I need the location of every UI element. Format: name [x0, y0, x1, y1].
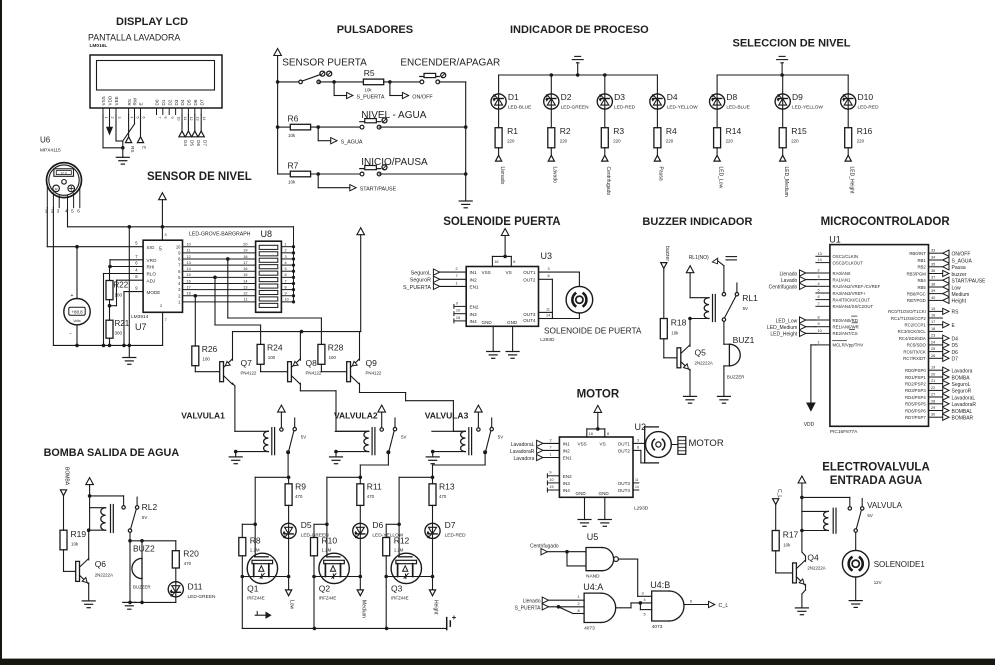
svg-text:220: 220: [726, 139, 734, 144]
svg-text:1: 1: [578, 595, 580, 599]
svg-text:R3: R3: [613, 126, 624, 136]
svg-text:U4:A: U4:A: [583, 582, 603, 592]
svg-text:220: 220: [666, 139, 674, 144]
svg-text:U1: U1: [829, 235, 841, 245]
svg-text:2: 2: [110, 117, 114, 119]
terminal LED_Low: [714, 148, 723, 189]
wire cell top Q2: [325, 476, 362, 527]
wire Q4 collector: [800, 529, 805, 562]
IC U7 LM3914 body: [143, 240, 182, 312]
svg-text:17: 17: [187, 285, 191, 289]
terminal LED_Medium: [780, 148, 789, 197]
svg-text:BUZ1: BUZ1: [733, 335, 755, 345]
svg-text:START/PAUSE: START/PAUSE: [952, 279, 987, 285]
svg-text:S_PUERTA: S_PUERTA: [515, 606, 542, 612]
svg-text:C_L: C_L: [719, 603, 729, 609]
svg-text:SOLENOIDE1: SOLENOIDE1: [874, 560, 926, 569]
svg-text:R17: R17: [783, 530, 799, 540]
svg-text:MOTOR: MOTOR: [577, 389, 620, 401]
svg-text:MICROCONTROLADOR: MICROCONTROLADOR: [821, 216, 951, 228]
svg-text:9: 9: [549, 471, 551, 475]
power +5V VALVULA1: [278, 405, 286, 431]
resistor R11 470: [357, 477, 382, 505]
svg-text:BUZZER INDICADOR: BUZZER INDICADOR: [642, 216, 752, 228]
svg-text:100: 100: [329, 355, 337, 360]
svg-text:21: 21: [931, 379, 935, 383]
tap wire to R24: [213, 276, 260, 345]
svg-text:8: 8: [285, 285, 287, 289]
terminal Llenado: [496, 148, 505, 185]
svg-text:Centrifugado: Centrifugado: [530, 544, 559, 550]
svg-text:17: 17: [243, 261, 247, 265]
mosfet Q2 IRFZ44E: [319, 524, 350, 600]
relay VALVULA coil: [802, 508, 836, 533]
svg-text:11: 11: [244, 298, 248, 302]
tap wire to R28: [226, 257, 321, 344]
pressure sensor U6 MPX4115: [45, 163, 82, 214]
svg-text:Medium: Medium: [360, 600, 366, 618]
svg-text:15: 15: [931, 307, 935, 311]
svg-text:OUT2: OUT2: [618, 449, 631, 454]
svg-text:Centrifugado: Centrifugado: [605, 167, 611, 196]
svg-text:6: 6: [285, 273, 287, 277]
resistor R17 10k: [772, 530, 798, 551]
svg-text:SeguroL: SeguroL: [411, 271, 431, 277]
svg-text:BOMBAL: BOMBAL: [952, 409, 973, 415]
svg-text:1: 1: [104, 117, 108, 119]
svg-text:PN4122: PN4122: [366, 371, 382, 376]
svg-text:Q1: Q1: [247, 584, 259, 594]
switch VALVULA2 5V: [386, 418, 406, 454]
svg-text:Lavado: Lavado: [552, 167, 558, 184]
svg-text:12: 12: [187, 255, 191, 259]
resistor R12 1.2M: [383, 524, 410, 576]
svg-text:IN4: IN4: [470, 319, 478, 324]
svg-text:U7: U7: [135, 322, 147, 332]
svg-text:1: 1: [285, 243, 287, 247]
svg-text:100: 100: [203, 357, 211, 362]
svg-text:D4: D4: [183, 140, 188, 146]
svg-text:D7: D7: [445, 520, 456, 530]
svg-text:M: M: [55, 187, 58, 191]
svg-text:Volts: Volts: [73, 319, 81, 323]
label U1: [829, 235, 841, 245]
wire U5 out to U4:B: [618, 559, 651, 596]
svg-text:15: 15: [243, 273, 247, 277]
svg-text:E: E: [139, 102, 144, 105]
terminal Low: [286, 539, 295, 610]
pin U7 RHI 6: [110, 261, 144, 281]
label ENCENDER/APAGAR: [400, 58, 500, 69]
svg-text:BOMBAR: BOMBAR: [952, 416, 974, 422]
wire drain drop Q1: [241, 577, 243, 629]
and gate U4:B 4073: [652, 591, 684, 630]
svg-text:7: 7: [157, 117, 161, 119]
power +5V electrovalvula: [798, 476, 806, 531]
svg-text:Lavadora: Lavadora: [514, 456, 535, 462]
label NIVEL - AGUA: [361, 110, 427, 121]
svg-text:5V: 5V: [301, 435, 306, 440]
svg-text:PANTALLA LAVADORA: PANTALLA LAVADORA: [88, 33, 180, 43]
svg-text:3: 3: [548, 267, 550, 271]
svg-text:3: 3: [117, 117, 121, 119]
svg-text:5V: 5V: [401, 435, 406, 440]
svg-text:LED_Height: LED_Height: [770, 332, 798, 338]
svg-text:RHI: RHI: [147, 265, 155, 270]
svg-text:Llenado: Llenado: [499, 167, 505, 185]
svg-text:LED_Low: LED_Low: [717, 167, 723, 189]
svg-text:RC0/T1OSO/T1CKI: RC0/T1OSO/T1CKI: [888, 309, 926, 314]
svg-text:34: 34: [931, 256, 935, 260]
svg-text:LavadoraR: LavadoraR: [510, 449, 535, 455]
svg-text:9: 9: [818, 322, 820, 326]
resistor R5: [363, 68, 383, 93]
led D4 LED-YELLOW: [650, 75, 698, 110]
title PULSADORES: [337, 24, 413, 36]
svg-text:D7: D7: [199, 99, 204, 105]
net buzzer U1: [943, 270, 967, 277]
svg-text:RB6/PGC: RB6/PGC: [907, 291, 926, 296]
svg-text:39: 39: [931, 289, 935, 293]
title MOTOR: [577, 389, 620, 401]
title SENSOR DE NIVEL: [147, 171, 252, 183]
wire Q9 emitter: [359, 332, 361, 361]
svg-text:VSS: VSS: [101, 96, 106, 105]
terminal C_L input: [773, 489, 782, 531]
svg-text:Medium: Medium: [952, 292, 970, 298]
svg-text:30: 30: [931, 413, 935, 417]
transistor Q7 PN4122: [195, 358, 257, 384]
net LavadoraR U1: [943, 401, 977, 408]
svg-text:D9: D9: [792, 92, 803, 102]
svg-text:10: 10: [456, 309, 460, 313]
net Medium U1: [943, 291, 970, 298]
svg-text:VSS: VSS: [578, 442, 587, 447]
ground solenoid1: [849, 577, 862, 607]
svg-text:SIG: SIG: [147, 245, 155, 250]
svg-text:LED_Medium: LED_Medium: [767, 325, 797, 331]
svg-text:18: 18: [931, 327, 935, 331]
wire Q6 emitter to ground: [82, 583, 95, 608]
svg-text:15: 15: [549, 485, 553, 489]
svg-text:C_L: C_L: [776, 489, 782, 498]
svg-text:SELECCION DE NIVEL: SELECCION DE NIVEL: [733, 38, 851, 50]
label LM016L: [90, 43, 108, 49]
wire U4:A out to U4:B: [616, 598, 652, 617]
svg-text:RD4/PSP4: RD4/PSP4: [905, 395, 926, 400]
svg-text:5V: 5V: [498, 435, 503, 440]
svg-text:IN3: IN3: [563, 481, 571, 486]
svg-text:D10: D10: [858, 92, 874, 102]
svg-text:GND: GND: [576, 491, 587, 496]
relay RL2 switch 5V: [90, 496, 158, 532]
svg-text:D2: D2: [167, 99, 172, 105]
label U6: [40, 136, 61, 154]
svg-text:VS: VS: [506, 270, 512, 275]
svg-text:SENSOR DE NIVEL: SENSOR DE NIVEL: [147, 171, 252, 183]
bargraph U8 body: [256, 241, 282, 312]
title SELECCION DE NIVEL: [733, 38, 851, 50]
label U4:B: [650, 580, 670, 590]
svg-text:buzzer: buzzer: [952, 272, 967, 278]
bottom source bus: [242, 627, 446, 631]
svg-text:2N2222A: 2N2222A: [807, 566, 825, 571]
svg-text:RD6/PSP6: RD6/PSP6: [905, 408, 926, 413]
terminal Height: [429, 539, 438, 616]
svg-text:LED_Medium: LED_Medium: [783, 167, 789, 197]
U7 V- pin to bus: [163, 312, 167, 345]
svg-text:RD3/PSP3: RD3/PSP3: [905, 388, 926, 393]
svg-text:RC3/SCK/SCL: RC3/SCK/SCL: [898, 329, 927, 334]
LCD display LM016L body: [90, 55, 222, 115]
switch RL1(NO): [689, 255, 737, 293]
svg-text:VSS: VSS: [482, 270, 491, 275]
svg-text:ON/OFF: ON/OFF: [412, 95, 433, 101]
resistor R1 220: [495, 109, 518, 148]
svg-text:LED-RED: LED-RED: [614, 104, 636, 110]
svg-text:20: 20: [931, 373, 935, 377]
svg-text:Q3: Q3: [391, 584, 403, 594]
svg-text:IRFZ44E: IRFZ44E: [391, 596, 409, 601]
terminal Centrifugado: [602, 148, 611, 196]
svg-text:LM3914: LM3914: [131, 314, 149, 320]
switch VALVULA3 5V: [483, 418, 503, 454]
input Centrifugado U5: [530, 544, 586, 566]
wire VSS to ground: [103, 115, 123, 148]
button INICIO/PAUSA: [360, 165, 387, 176]
led D11 LED-GREEN: [168, 568, 216, 600]
transistor Q4 2N2222A: [793, 553, 826, 586]
svg-text:LED-BLUE: LED-BLUE: [508, 104, 531, 110]
svg-text:IN1: IN1: [563, 442, 571, 447]
svg-text:17: 17: [931, 320, 935, 324]
svg-text:Q6: Q6: [95, 559, 107, 569]
wire Q8 collector to VALVULA2: [300, 383, 368, 431]
svg-text:Llenado: Llenado: [523, 599, 541, 605]
svg-text:18: 18: [243, 255, 247, 259]
svg-text:VALVULA3: VALVULA3: [425, 411, 469, 421]
led D1 LED-BLUE: [491, 75, 531, 110]
svg-text:LED-GROVE-BARGRAPH: LED-GROVE-BARGRAPH: [189, 232, 251, 238]
U2 EN2 IN3 IN4 stubs: [547, 471, 559, 492]
svg-text:LED-BLUE: LED-BLUE: [726, 104, 749, 110]
net SeguroL U1: [943, 381, 971, 388]
svg-text:20: 20: [243, 243, 247, 247]
svg-text:3: 3: [637, 438, 639, 442]
svg-text:11: 11: [635, 478, 639, 482]
svg-text:VDD: VDD: [108, 95, 113, 105]
svg-text:6: 6: [637, 445, 639, 449]
input LavadoraL U2: [511, 438, 560, 448]
svg-text:VALVULA1: VALVULA1: [181, 411, 225, 421]
svg-text:R2: R2: [560, 126, 571, 136]
terminal BOMBA: [60, 467, 69, 530]
svg-text:ADJ: ADJ: [147, 278, 156, 283]
svg-text:19: 19: [243, 249, 247, 253]
svg-text:RA5/AN4/SS/C2OUT: RA5/AN4/SS/C2OUT: [833, 304, 874, 309]
U3 grounds: [487, 326, 519, 358]
svg-text:buzzer: buzzer: [664, 246, 670, 261]
svg-text:GND: GND: [507, 320, 518, 325]
pin U7 MODE 9: [122, 286, 143, 348]
svg-text:Pausa: Pausa: [952, 265, 966, 271]
input Centrifugado U1: [769, 283, 816, 290]
svg-text:RS: RS: [127, 99, 132, 105]
svg-text:9: 9: [170, 117, 174, 119]
svg-text:R12: R12: [394, 536, 410, 546]
svg-text:10.0: 10.0: [61, 171, 67, 175]
svg-text:Low: Low: [289, 600, 295, 610]
svg-text:10: 10: [285, 298, 289, 302]
label VALVULA2: [334, 411, 378, 421]
resistor R28 100: [318, 343, 344, 365]
svg-text:RE2/AN7/CS: RE2/AN7/CS: [833, 331, 858, 336]
input SeguroR: [410, 274, 466, 284]
wire R5 to button: [384, 80, 422, 84]
label SENSOR PUERTA: [282, 58, 367, 69]
wire R19 to Q6 base: [64, 550, 78, 572]
svg-text:LED_Height: LED_Height: [848, 167, 854, 195]
svg-text:D0: D0: [155, 99, 160, 105]
wire source line Q2: [312, 575, 362, 579]
IC U3 L293D body: [466, 267, 538, 327]
svg-text:R6: R6: [288, 114, 299, 124]
svg-text:220: 220: [613, 139, 621, 144]
U3 EN2 IN3 IN4 stubs: [454, 301, 466, 323]
svg-text:R11: R11: [367, 482, 382, 492]
title BOMBA SALIDA DE AGUA: [44, 447, 180, 459]
svg-text:100: 100: [115, 293, 123, 298]
svg-text:5: 5: [135, 117, 139, 119]
svg-text:100: 100: [268, 355, 276, 360]
svg-text:35: 35: [931, 262, 935, 266]
power rail seleccion: [717, 56, 848, 76]
net S_AGUA U1: [943, 257, 973, 264]
resistor R6: [276, 114, 311, 138]
svg-text:5V: 5V: [142, 515, 147, 520]
svg-text:R7: R7: [288, 161, 299, 171]
svg-text:7: 7: [456, 274, 458, 278]
svg-text:11: 11: [183, 117, 187, 121]
ground pulsadores: [459, 201, 472, 208]
svg-text:EN2: EN2: [563, 474, 572, 479]
svg-text:4: 4: [644, 598, 646, 602]
U2 grounds: [578, 497, 611, 526]
buzzer BUZ2: [132, 539, 155, 604]
svg-text:L293D: L293D: [634, 506, 649, 512]
svg-text:VALVULA2: VALVULA2: [334, 411, 378, 421]
svg-text:29: 29: [931, 406, 935, 410]
svg-text:24: 24: [931, 340, 935, 344]
svg-text:EN2: EN2: [470, 305, 479, 310]
wire R21 to bus: [108, 338, 112, 347]
wire RW to ground junction: [123, 115, 135, 142]
svg-text:D3: D3: [614, 92, 625, 102]
terminal C_L output: [684, 599, 728, 609]
svg-text:6: 6: [141, 117, 145, 119]
IC U2 L293D body: [559, 437, 633, 497]
svg-text:13: 13: [818, 252, 822, 256]
resistor R24 100: [257, 343, 283, 365]
svg-text:RB1: RB1: [917, 258, 926, 263]
svg-text:10k: 10k: [783, 543, 791, 548]
input LavadoraR U2: [510, 445, 559, 455]
svg-text:RB0/INT: RB0/INT: [909, 251, 926, 256]
svg-text:LED-RED: LED-RED: [445, 533, 467, 539]
pin U7 RLO 4: [102, 268, 143, 348]
svg-text:3: 3: [165, 233, 167, 237]
svg-text:U4:B: U4:B: [650, 580, 670, 590]
wire VALVULA1 switch to cell1: [287, 452, 289, 477]
svg-text:5: 5: [285, 267, 287, 271]
wire button2 to bus: [379, 125, 467, 129]
svg-text:10k: 10k: [288, 180, 296, 185]
svg-text:R20: R20: [183, 549, 199, 559]
svg-text:19: 19: [931, 366, 935, 370]
svg-text:13: 13: [187, 261, 191, 265]
wire source line Q3: [384, 575, 434, 579]
net D7 U1: [943, 355, 958, 362]
svg-text:IN1: IN1: [470, 270, 478, 275]
net D6 U1: [943, 349, 958, 356]
svg-text:14: 14: [635, 485, 639, 489]
led D8 LED-BLUE: [710, 75, 750, 110]
left page border: [0, 0, 2, 659]
wire D11 bottom loop: [130, 596, 176, 603]
power +5V for U7: [159, 193, 167, 241]
ground under LCD: [116, 146, 129, 164]
buzzer BUZ1: [724, 321, 755, 396]
svg-text:OUT4: OUT4: [523, 318, 536, 323]
svg-text:R9: R9: [295, 482, 306, 492]
label INICIO/PAUSA: [361, 157, 428, 168]
power +5V U3: [492, 229, 515, 267]
svg-text:E: E: [142, 146, 147, 149]
svg-text:5: 5: [644, 613, 646, 617]
svg-text:10: 10: [187, 243, 191, 247]
svg-text:OUT4: OUT4: [618, 488, 631, 493]
svg-text:D4: D4: [667, 92, 678, 102]
svg-text:R26: R26: [202, 344, 218, 354]
svg-text:VDD: VDD: [804, 422, 815, 428]
svg-text:RB7/PGD: RB7/PGD: [907, 298, 926, 303]
svg-text:LED-RED: LED-RED: [858, 104, 880, 110]
svg-text:RE0/AN5/RD: RE0/AN5/RD: [833, 318, 858, 323]
svg-text:2: 2: [818, 269, 820, 273]
net LavadoraL U1: [943, 394, 976, 401]
svg-text:9: 9: [285, 292, 287, 296]
svg-text:16: 16: [589, 432, 593, 436]
input LED_Low U1: [776, 317, 816, 324]
svg-text:R24: R24: [267, 343, 283, 353]
label VALVULA1: [181, 411, 225, 421]
svg-text:8: 8: [578, 609, 580, 613]
svg-text:Q2: Q2: [319, 584, 331, 594]
svg-text:LavadoraL: LavadoraL: [952, 395, 976, 401]
wires U7 outputs to U8: [176, 243, 256, 305]
svg-text:Lavadora: Lavadora: [952, 369, 973, 375]
svg-text:18: 18: [187, 292, 191, 296]
svg-text:RC5/SDO: RC5/SDO: [907, 343, 927, 348]
transistor Q8 PN4122: [261, 358, 322, 384]
svg-text:LavadoraR: LavadoraR: [952, 402, 977, 408]
power +5V RL1: [686, 266, 709, 298]
svg-text:14: 14: [546, 313, 550, 317]
svg-text:D6: D6: [372, 520, 383, 530]
emitter rail +5V valves: [233, 228, 365, 361]
svg-text:R22: R22: [114, 281, 129, 290]
svg-text:-: -: [70, 331, 72, 337]
